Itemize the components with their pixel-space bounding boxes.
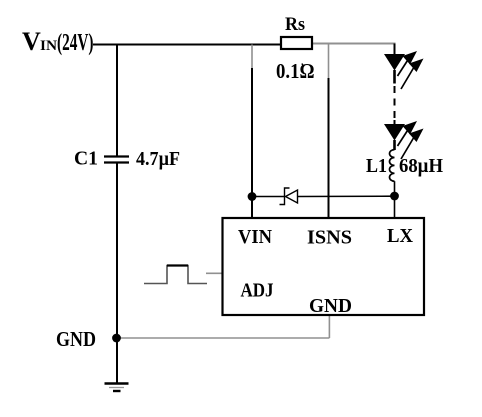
svg-text:GND: GND (56, 327, 96, 351)
svg-text:LX: LX (387, 225, 414, 247)
svg-text:4.7µF: 4.7µF (136, 148, 180, 170)
svg-text:C1: C1 (74, 148, 98, 170)
svg-text:V: V (22, 27, 41, 56)
svg-text:ADJ: ADJ (241, 280, 274, 302)
svg-text:GND: GND (309, 295, 352, 317)
svg-text:IN: IN (40, 38, 57, 54)
svg-text:68µH: 68µH (399, 155, 443, 177)
svg-text:ISNS: ISNS (307, 227, 352, 249)
svg-text:0.1Ω: 0.1Ω (276, 59, 315, 83)
svg-text:(24V): (24V) (57, 30, 94, 56)
svg-text:VIN: VIN (238, 226, 273, 248)
svg-text:Rs: Rs (285, 14, 305, 35)
svg-text:L1: L1 (366, 155, 387, 177)
